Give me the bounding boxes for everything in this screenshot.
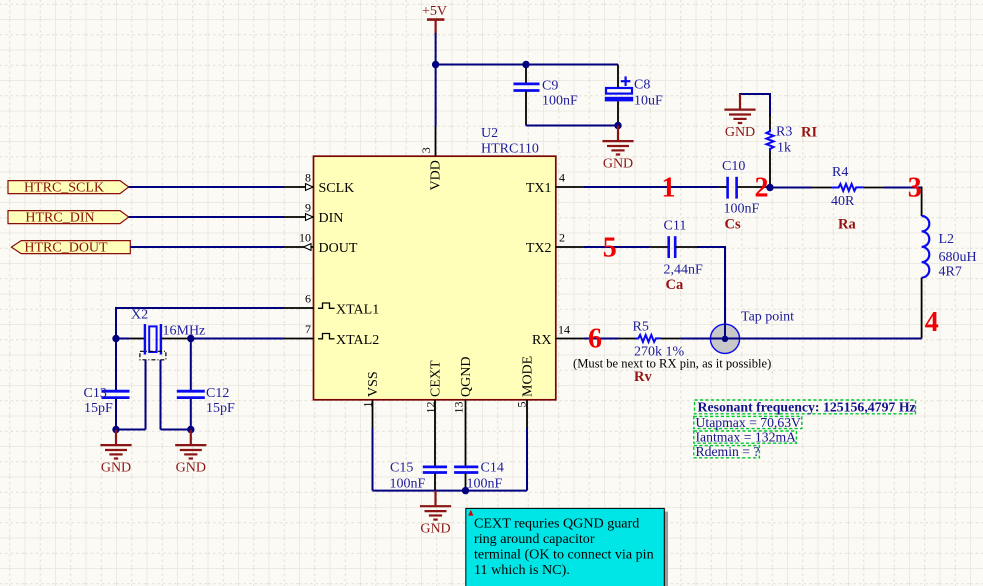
- svg-text:4R7: 4R7: [939, 265, 962, 280]
- port HTRC_DIN: [8, 211, 129, 226]
- wire decoupling bottom rail: [526, 125, 618, 127]
- wire RX to R5: [584, 338, 619, 340]
- svg-text:(Must be next to RX pin, as it: (Must be next to RX pin, as it possible): [573, 356, 771, 370]
- pin 14 RX: [532, 323, 584, 348]
- label Ra: [838, 216, 856, 232]
- capacitor C8 (polarized): [605, 76, 663, 125]
- wire +5V down to VDD: [435, 33, 437, 127]
- parameter Rdemin: [694, 444, 760, 459]
- svg-text:100nF: 100nF: [467, 477, 503, 492]
- svg-text:9: 9: [305, 201, 311, 215]
- node number 5: [603, 233, 617, 264]
- label Rv: [634, 369, 652, 385]
- svg-text:HTRC_DOUT: HTRC_DOUT: [24, 241, 108, 256]
- pin 8 SCLK: [284, 171, 354, 197]
- note must be next to RX: [573, 356, 771, 370]
- svg-text:ring around capacitor: ring around capacitor: [474, 531, 595, 547]
- svg-text:VDD: VDD: [429, 160, 444, 190]
- svg-text:Utapmax = 70,63V: Utapmax = 70,63V: [696, 415, 802, 430]
- IC U2 HTRC110: [314, 126, 556, 400]
- pin 2 TX2: [526, 231, 584, 257]
- svg-text:Rdemin = ?: Rdemin = ?: [696, 444, 760, 459]
- svg-text:6: 6: [305, 292, 311, 306]
- pin 1 VSS: [361, 371, 382, 428]
- svg-text:12: 12: [424, 402, 438, 414]
- svg-text:GND: GND: [603, 157, 633, 172]
- svg-text:Iantmax = 132mA: Iantmax = 132mA: [696, 430, 797, 445]
- parameter resonant frequency: [695, 400, 916, 415]
- svg-text:C12: C12: [206, 386, 229, 401]
- note CEXT guard ring: [466, 508, 668, 586]
- node number 4: [925, 307, 939, 338]
- node 2 junction: [766, 184, 773, 191]
- svg-text:R3: R3: [776, 124, 792, 139]
- wire node4 to tap point: [725, 338, 922, 340]
- node bus junction: [462, 487, 469, 494]
- pin 12 CEXT: [424, 360, 444, 428]
- port HTRC_SCLK: [8, 181, 129, 196]
- wire C11 to tap point: [697, 247, 725, 339]
- svg-text:GND: GND: [420, 522, 450, 537]
- svg-text:2,44nF: 2,44nF: [664, 263, 704, 278]
- svg-text:C11: C11: [664, 219, 687, 234]
- wire top rail: [436, 64, 618, 66]
- svg-text:11 which is NC).: 11 which is NC).: [474, 562, 570, 578]
- svg-text:GND: GND: [101, 461, 131, 476]
- node C12 bottom: [187, 426, 194, 433]
- svg-text:3: 3: [908, 173, 922, 204]
- svg-text:DOUT: DOUT: [319, 241, 358, 256]
- label RI: [801, 124, 817, 140]
- wire TX1 to C10: [584, 186, 719, 188]
- wire L2 down to node4: [921, 278, 923, 339]
- pin 4 TX1: [526, 171, 584, 197]
- node X2 right: [187, 335, 194, 342]
- svg-text:CEXT requries QGND guard: CEXT requries QGND guard: [474, 516, 639, 532]
- node C13 bottom: [112, 426, 119, 433]
- svg-text:HTRC_SCLK: HTRC_SCLK: [24, 181, 104, 196]
- svg-text:7: 7: [305, 322, 311, 336]
- node C9 top: [522, 61, 529, 68]
- svg-text:MODE: MODE: [521, 356, 536, 397]
- svg-text:C10: C10: [722, 159, 745, 174]
- svg-text:terminal (OK to connect via pi: terminal (OK to connect via pin: [474, 547, 654, 563]
- wire R5 to tap point: [681, 338, 726, 340]
- node number 6: [588, 323, 602, 354]
- wire node2 to R4: [770, 187, 812, 189]
- svg-text:5: 5: [515, 402, 529, 408]
- svg-text:Cs: Cs: [725, 216, 741, 232]
- wire C8 branch: [617, 65, 619, 88]
- svg-text:TX1: TX1: [526, 181, 552, 196]
- svg-text:C9: C9: [542, 78, 558, 93]
- inductor L2: [922, 216, 977, 280]
- node C8 bottom: [614, 122, 621, 129]
- svg-text:10: 10: [299, 231, 311, 245]
- capacitor C10: [719, 159, 771, 216]
- svg-text:5: 5: [603, 233, 617, 264]
- wire GND to R3: [740, 94, 770, 116]
- wire R4 to node3: [884, 187, 922, 189]
- pin 6 XTAL1: [284, 292, 379, 318]
- svg-text:15pF: 15pF: [206, 401, 235, 416]
- svg-text:XTAL2: XTAL2: [336, 333, 379, 348]
- svg-text:10uF: 10uF: [634, 94, 663, 109]
- svg-text:100nF: 100nF: [542, 93, 578, 108]
- wire VSS down: [372, 428, 374, 491]
- svg-text:15pF: 15pF: [84, 401, 113, 416]
- resistor R3: [766, 115, 792, 188]
- svg-text:SCLK: SCLK: [319, 181, 355, 196]
- ground GND near R3: [724, 94, 755, 140]
- svg-text:VSS: VSS: [366, 371, 381, 397]
- wire HTRC_DIN to pin 9: [129, 216, 284, 218]
- power +5V: [422, 4, 447, 34]
- svg-text:RI: RI: [801, 124, 817, 140]
- svg-text:C13: C13: [84, 386, 107, 401]
- svg-text:QGND: QGND: [459, 357, 474, 397]
- svg-text:100nF: 100nF: [390, 477, 426, 492]
- node X2 left: [112, 335, 119, 342]
- label Ca: [666, 277, 684, 293]
- wire TX2 to C11: [584, 246, 649, 248]
- svg-text:Resonant frequency: 125156,479: Resonant frequency: 125156,4797 Hz: [698, 400, 916, 415]
- svg-text:13: 13: [452, 402, 466, 414]
- node at VDD rail: [432, 61, 439, 68]
- svg-text:GND: GND: [176, 461, 206, 476]
- ground GND below bus: [420, 491, 451, 537]
- svg-text:CEXT: CEXT: [429, 360, 444, 397]
- svg-text:C8: C8: [634, 78, 650, 93]
- svg-text:+5V: +5V: [422, 4, 447, 19]
- port HTRC_DOUT: [11, 241, 130, 256]
- svg-text:HTRC110: HTRC110: [481, 142, 539, 157]
- svg-text:680uH: 680uH: [939, 250, 977, 265]
- parameter Iantmax: [694, 430, 797, 445]
- wire HTRC_SCLK to pin 8: [129, 186, 284, 188]
- wire XTAL2: [191, 338, 284, 340]
- svg-text:R4: R4: [832, 165, 848, 180]
- resistor R4: [812, 165, 884, 209]
- wire MODE down: [526, 428, 528, 491]
- svg-text:6: 6: [588, 323, 602, 354]
- pin 13 QGND: [452, 357, 475, 428]
- svg-text:RX: RX: [532, 333, 551, 348]
- svg-text:Ca: Ca: [666, 277, 684, 293]
- svg-text:4: 4: [559, 171, 565, 185]
- svg-text:U2: U2: [481, 126, 498, 141]
- parameter Utapmax: [694, 415, 802, 430]
- svg-text:1k: 1k: [777, 141, 791, 156]
- wire node3 down: [921, 187, 923, 217]
- svg-text:8: 8: [305, 171, 311, 185]
- svg-text:XTAL1: XTAL1: [336, 302, 379, 317]
- svg-text:C15: C15: [390, 460, 413, 475]
- crystal X2: [116, 308, 205, 430]
- capacitor C14: [454, 428, 504, 492]
- node number 1: [662, 173, 676, 204]
- svg-text:16MHz: 16MHz: [163, 323, 206, 338]
- svg-text:4: 4: [925, 307, 939, 338]
- wire crystal case right: [161, 429, 191, 431]
- svg-text:C14: C14: [481, 460, 504, 475]
- label Cs: [725, 216, 741, 232]
- svg-text:HTRC_DIN: HTRC_DIN: [25, 211, 94, 226]
- svg-text:3: 3: [419, 147, 433, 153]
- ground GND below C12: [175, 430, 206, 476]
- pin 10 DOUT: [284, 231, 358, 257]
- capacitor C15: [390, 428, 448, 492]
- svg-text:L2: L2: [939, 232, 955, 247]
- resistor R5: [619, 320, 685, 360]
- svg-text:40R: 40R: [831, 194, 855, 209]
- ground GND below C8: [602, 126, 633, 172]
- svg-text:DIN: DIN: [319, 211, 344, 226]
- capacitor C12: [177, 339, 235, 430]
- svg-text:1: 1: [361, 402, 375, 408]
- pin 3 VDD: [419, 127, 444, 191]
- svg-text:Rv: Rv: [634, 369, 652, 385]
- wire HTRC_DOUT to pin 10: [130, 246, 284, 248]
- svg-text:TX2: TX2: [526, 241, 552, 256]
- node number 3: [908, 173, 922, 204]
- svg-text:2: 2: [559, 231, 565, 245]
- pin 9 DIN: [284, 201, 343, 227]
- node number 2: [755, 173, 769, 204]
- capacitor C11: [649, 219, 703, 278]
- svg-text:Ra: Ra: [838, 216, 856, 232]
- wire ground bus: [373, 490, 528, 492]
- svg-text:X2: X2: [131, 308, 148, 323]
- capacitor C9: [514, 65, 579, 126]
- svg-text:100nF: 100nF: [724, 201, 760, 216]
- pin 5 MODE: [515, 356, 536, 428]
- tap point: [710, 309, 794, 353]
- svg-text:Tap point: Tap point: [741, 309, 794, 324]
- pin 7 XTAL2: [284, 322, 379, 348]
- svg-text:GND: GND: [725, 125, 755, 140]
- capacitor C13: [84, 339, 130, 430]
- svg-text:14: 14: [558, 323, 570, 337]
- ground GND below C13: [100, 430, 131, 476]
- svg-text:1: 1: [662, 173, 676, 204]
- wire XTAL1: [116, 308, 284, 339]
- svg-text:R5: R5: [633, 320, 649, 335]
- wire crystal case left: [116, 429, 146, 431]
